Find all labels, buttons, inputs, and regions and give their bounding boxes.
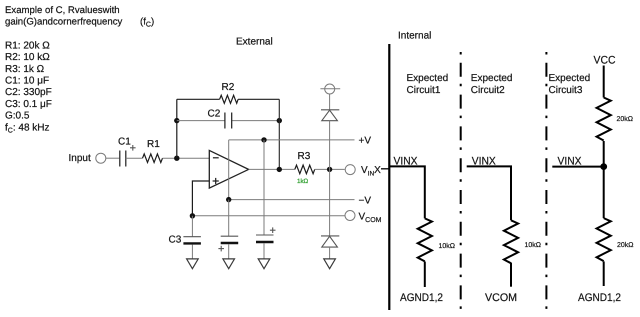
wire resistor to node (603, 141, 605, 167)
wire feedback right vertical (278, 99, 280, 169)
svg-text:R1: R1 (147, 139, 160, 150)
wire VINX 1 (389, 166, 425, 218)
ground symbol under D2 (324, 259, 336, 269)
svg-text:External: External (236, 36, 273, 47)
node junction dot VINX external (327, 167, 332, 172)
line through top terminal (320, 88, 340, 90)
wire +V rail (229, 139, 355, 141)
node junction dot output/feedback (277, 167, 282, 172)
wire R1 to op-amp inverting input (163, 157, 210, 159)
svg-text:R3: R3 (298, 151, 311, 162)
svg-text:+V: +V (359, 135, 372, 146)
wire second cap to ground (228, 244, 230, 259)
op-amp plus sign (213, 178, 219, 184)
svg-text:VCOM: VCOM (359, 211, 382, 224)
op-amp U1 (209, 150, 248, 188)
capacitor C2 (225, 113, 232, 129)
svg-text:C2: 330pF: C2: 330pF (5, 87, 52, 98)
svg-text:−V: −V (359, 196, 372, 207)
svg-text:Expected: Expected (407, 73, 449, 84)
internal boundary line (388, 44, 390, 310)
ground symbol under C3 (187, 259, 199, 269)
wire clamp vertical (329, 121, 331, 236)
svg-text:Expected: Expected (549, 73, 591, 84)
diode D1 cathode bar (321, 109, 339, 111)
node junction dot on -V rail (226, 197, 231, 202)
label Expected Circuit1 (407, 73, 449, 96)
svg-text:C2: C2 (208, 108, 221, 119)
svg-text:(fC): (fC) (140, 16, 154, 28)
wire dash X to internal boundary (381, 168, 389, 170)
svg-text:R1: 20k Ω: R1: 20k Ω (5, 40, 50, 51)
wire node to lower resistor (603, 167, 605, 219)
svg-text:C3: 0.1 μF: C3: 0.1 μF (5, 99, 52, 110)
svg-text:G:0.5: G:0.5 (5, 111, 30, 122)
wire third cap to ground (263, 243, 265, 259)
svg-text:R2: R2 (222, 82, 235, 93)
wire C3 branch vertical (191, 216, 193, 237)
resistor 20k lower (597, 218, 611, 261)
svg-text:R3: 1k Ω: R3: 1k Ω (5, 64, 45, 75)
node junction dot feedback-left / C2 (174, 118, 179, 123)
op-amp minus sign (213, 157, 219, 159)
label Expected Circuit2 (471, 73, 513, 96)
wire VINX 3 (552, 166, 603, 168)
separator dash-dot line 1 (460, 52, 462, 311)
wire VCOM rail (192, 215, 344, 217)
plus sign of C1 (130, 145, 136, 151)
wire op-amp output (249, 168, 295, 170)
wire input to C1 (106, 157, 119, 159)
svg-text:C1: C1 (118, 137, 131, 148)
svg-text:AGND1,2: AGND1,2 (400, 292, 443, 304)
svg-text:Internal: Internal (398, 31, 431, 42)
wire non-inverting input (192, 181, 209, 216)
svg-text:VINX: VINX (361, 165, 381, 177)
plus sign of second capacitor (218, 246, 224, 252)
diode D2 cathode bar (321, 235, 339, 237)
wire R3 to terminal (315, 168, 345, 170)
svg-text:VCC: VCC (594, 55, 616, 67)
resistor R3 (295, 165, 315, 174)
svg-text:fC: 48 kHz: fC: 48 kHz (5, 122, 50, 134)
node junction dot circuit3 (600, 163, 607, 170)
wire resistor1 to AGND (424, 262, 426, 288)
svg-text:Circuit2: Circuit2 (471, 85, 505, 96)
resistor 10k circuit2 (504, 220, 518, 263)
wire feedback left vertical (176, 99, 178, 158)
wire D2 to ground (329, 247, 331, 258)
capacitor C1 (120, 151, 126, 167)
svg-text:Input: Input (69, 153, 91, 164)
ground symbol under second capacitor (223, 259, 235, 269)
VCOM terminal circle (345, 211, 355, 221)
capacitor C3 (183, 237, 201, 244)
capacitor C4 (second bottom) (221, 236, 239, 243)
wire VCC to resistor (603, 66, 605, 98)
resistor 10k circuit1 (418, 218, 432, 261)
input terminal circle (96, 153, 106, 163)
wire C3 to ground (191, 245, 193, 259)
svg-text:gain(G)andcornerfrequency: gain(G)andcornerfrequency (5, 16, 123, 27)
node junction dot C2 right (277, 118, 282, 123)
separator dash-dot line 2 (545, 52, 547, 311)
wire second capacitor branch vertical (228, 200, 230, 237)
svg-text:10kΩ: 10kΩ (525, 241, 542, 249)
svg-text:20kΩ: 20kΩ (617, 241, 634, 249)
svg-text:1kΩ: 1kΩ (297, 178, 309, 185)
plus sign of third capacitor (270, 227, 276, 233)
wire resistor2 to VCOM (510, 263, 512, 287)
node junction dot at inverting input (174, 156, 179, 161)
title text (5, 5, 154, 29)
svg-text:C3: C3 (169, 235, 182, 246)
svg-text:VINX: VINX (558, 155, 583, 167)
diode D2 (322, 236, 338, 247)
resistor R1 (143, 154, 163, 163)
resistor 20k upper (597, 98, 611, 141)
svg-text:Example of C, Rvalueswith: Example of C, Rvalueswith (5, 5, 120, 16)
svg-text:C1: 10 μF: C1: 10 μF (5, 76, 49, 87)
svg-text:Circuit1: Circuit1 (407, 85, 441, 96)
svg-text:VCOM: VCOM (485, 292, 517, 304)
svg-text:R2: 10 kΩ: R2: 10 kΩ (5, 52, 50, 63)
svg-text:AGND1,2: AGND1,2 (578, 292, 621, 304)
top clamp terminal circle (325, 84, 335, 94)
wire R2 branch top (177, 98, 279, 100)
node junction dot on +V rail (261, 137, 266, 142)
svg-text:20kΩ: 20kΩ (617, 115, 634, 123)
label Expected Circuit3 (549, 73, 591, 96)
wire C2 branch (177, 120, 279, 122)
svg-text:Expected: Expected (471, 73, 513, 84)
svg-text:Circuit3: Circuit3 (549, 85, 583, 96)
svg-text:10kΩ: 10kΩ (439, 242, 456, 250)
wire third capacitor branch vertical (263, 140, 265, 235)
capacitor C5 (third bottom) (256, 235, 274, 242)
wire lower resistor to AGND (603, 261, 605, 286)
wire terminal to top diode (329, 94, 331, 110)
VINX external terminal circle (345, 165, 355, 175)
diode D1 (322, 110, 338, 121)
wire VINX 2 (467, 166, 511, 220)
ground symbol under third capacitor (258, 259, 270, 269)
node junction dot on VCOM rail (190, 213, 195, 218)
wire op-amp power vertical (228, 140, 230, 200)
wire -V rail (229, 199, 355, 201)
resistor R2 (220, 95, 239, 103)
wire C1 to R1 (126, 157, 143, 159)
